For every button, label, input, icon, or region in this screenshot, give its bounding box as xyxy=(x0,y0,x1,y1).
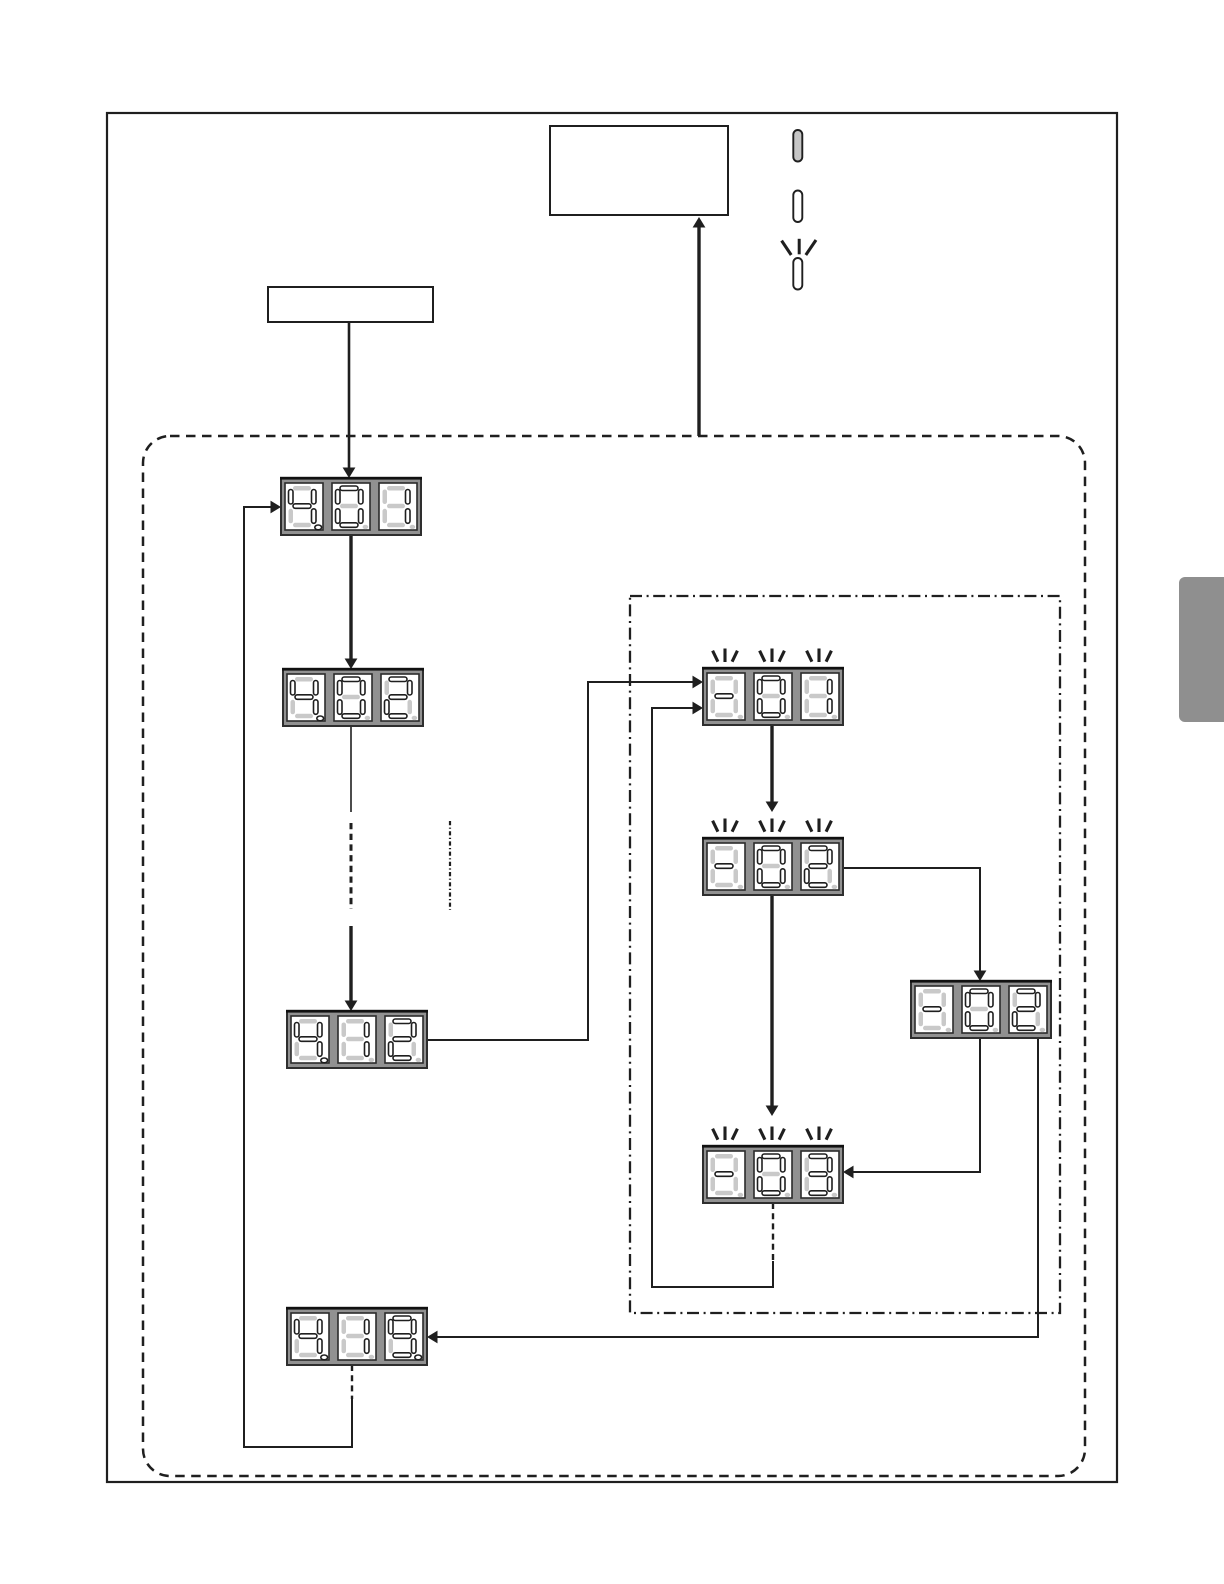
wire: -01 down to -02 (arrow) xyxy=(766,725,779,812)
display -02 blinking xyxy=(702,819,844,896)
wire: steady -02 down-left to -03 (arrow) xyxy=(843,1038,980,1178)
display -01 blinking xyxy=(702,649,844,726)
box: dash-dot submenu region xyxy=(630,596,1060,1313)
display 4.19 xyxy=(286,1307,428,1365)
wire: dashed ellipsis continuation (left) xyxy=(350,823,353,909)
wire: 4.19 loop back up to 4.01 (dashed then arrow) xyxy=(244,501,352,1447)
wire: 4.02 downward thin lead xyxy=(350,725,352,812)
wire: 4.01 down to 4.02 (arrow) xyxy=(345,535,358,669)
box: dashed parameter-menu region xyxy=(143,436,1085,1476)
display -03 blinking xyxy=(702,1127,844,1204)
wire: down to 4.12 (arrow) xyxy=(345,926,358,1011)
wire: 4.12 right to -01 (arrow into submenu) xyxy=(427,676,703,1040)
gray thumb tab (right edge) xyxy=(1179,577,1224,722)
wire: dash-dot ellipsis continuation (right) xyxy=(449,821,451,910)
legend: segment lit (filled capsule) xyxy=(793,130,802,162)
display 4.12 xyxy=(286,1010,428,1068)
wire: programming box down to display 4.01 (arrow) xyxy=(343,322,356,478)
display -02 steady xyxy=(910,980,1052,1038)
wire: -02 right to steady -02 (arrow) xyxy=(843,868,986,981)
box: display-mode rectangle (top) xyxy=(550,126,728,215)
wire: steady -02 down to 4.19 (arrow) xyxy=(427,1038,1038,1343)
display 4.02 xyxy=(282,668,424,726)
legend: segment blinking (capsule with rays) xyxy=(782,239,816,290)
wire: exit arrow up to display-mode rectangle xyxy=(693,217,706,436)
wire: -02 down to -03 (arrow) xyxy=(766,895,779,1116)
wire: -03 loop back up to -01 (dashed then arrow) xyxy=(652,702,773,1287)
legend: segment off (outline capsule) xyxy=(793,191,802,223)
page border frame xyxy=(107,113,1117,1482)
display 4.01 xyxy=(280,477,422,535)
box: programming-mode box (small rectangle) xyxy=(268,287,433,322)
